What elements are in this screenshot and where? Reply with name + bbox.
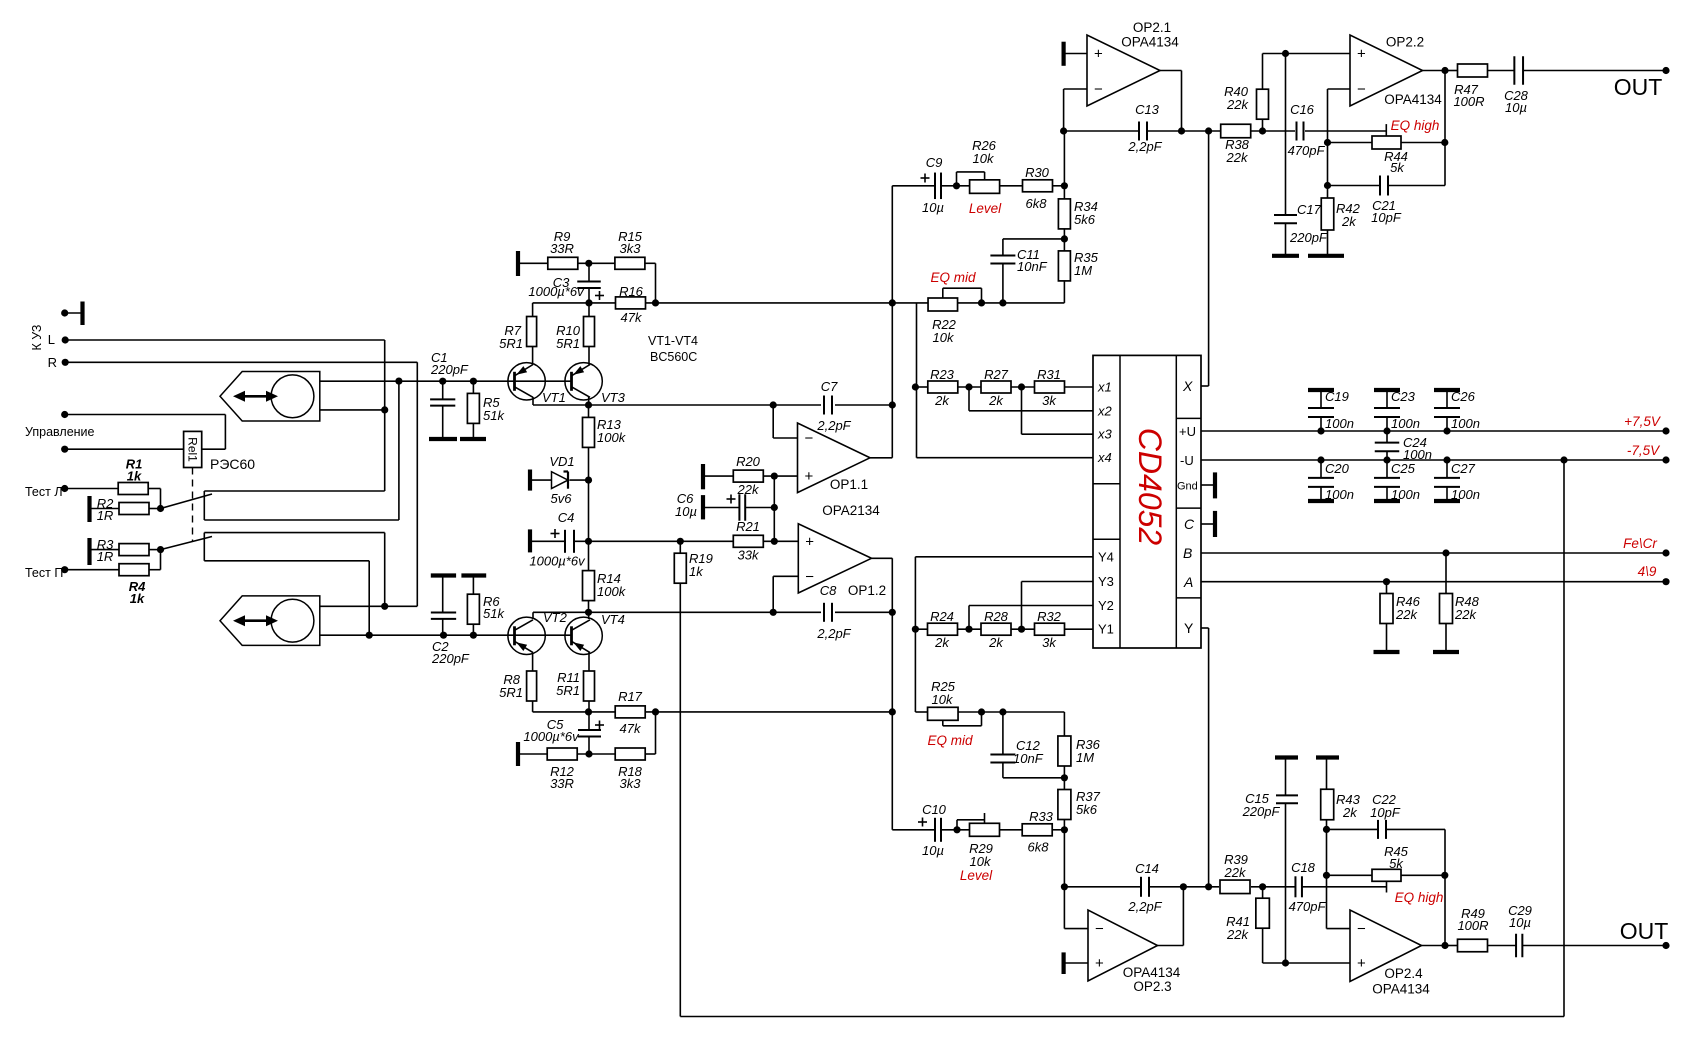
wire VT1 collector down (532, 397, 534, 405)
svg-text:100k: 100k (597, 430, 627, 445)
wire R22 chain riser top (916, 303, 918, 458)
wire OP2.2 - input (1328, 88, 1351, 90)
wire R45 right (1401, 874, 1445, 876)
svg-text:Y4: Y4 (1098, 549, 1114, 564)
svg-text:VT4: VT4 (601, 612, 625, 627)
wire R5 stubs (472, 381, 474, 393)
junction (1282, 50, 1289, 57)
wire R22 right to R35 bottom (958, 302, 1065, 304)
svg-text:1M: 1M (1076, 750, 1094, 765)
wire x4 line (917, 457, 1094, 459)
wire OUT line bottom (1522, 945, 1666, 947)
junction (381, 406, 388, 413)
wire R3 left to ground (90, 549, 120, 551)
resistor R10 (584, 317, 595, 347)
wire OP2.2 fb column (1327, 89, 1329, 186)
junction (978, 299, 985, 306)
svg-text:10k: 10k (933, 330, 955, 345)
wire head1 top lead / VT1 base line (320, 380, 572, 382)
svg-text:EQ high: EQ high (1391, 118, 1440, 133)
wire +7.5V rail (1201, 430, 1666, 432)
svg-text:100n: 100n (1451, 487, 1480, 502)
junction (770, 609, 777, 616)
svg-text:VD1: VD1 (549, 454, 574, 469)
capacitor C17 (1274, 214, 1297, 216)
svg-text:+U: +U (1179, 424, 1196, 439)
svg-text:Level: Level (969, 201, 1002, 216)
ground (461, 573, 486, 577)
wire OP1.2 - input (773, 575, 798, 577)
svg-text:22k: 22k (1454, 607, 1477, 622)
svg-text:Y: Y (1184, 620, 1194, 636)
junction (953, 182, 960, 189)
junction (912, 626, 919, 633)
wire contact1 step lower (204, 519, 399, 521)
wire R25 tap (942, 720, 944, 725)
svg-text:51k: 51k (483, 606, 505, 621)
svg-text:+: + (1095, 955, 1104, 972)
svg-text:VT2: VT2 (543, 610, 568, 625)
wire R36-R37 stubs (1063, 766, 1065, 789)
junction (157, 505, 164, 512)
wire contact2 drop to head2 top lead (384, 533, 386, 607)
svg-text:C: C (1184, 516, 1195, 532)
wire C10 line (892, 829, 935, 831)
wire R19 top stub (679, 541, 681, 553)
junction (771, 473, 778, 480)
wire Y3 bend (1021, 582, 1023, 630)
tape head 1 (220, 372, 320, 422)
svg-text:R21: R21 (736, 519, 760, 534)
junction (585, 609, 592, 616)
svg-text:R17: R17 (618, 689, 643, 704)
svg-text:Тест П: Тест П (25, 566, 63, 580)
svg-text:220pF: 220pF (431, 651, 470, 666)
svg-text:6k8: 6k8 (1028, 840, 1050, 855)
svg-text:OPA2134: OPA2134 (822, 503, 880, 518)
transistor VT2 (508, 617, 545, 654)
junction (585, 477, 592, 484)
resistor R39 (1220, 880, 1250, 894)
resistor R13 (583, 417, 595, 447)
svg-text:OP1.2: OP1.2 (848, 583, 886, 598)
svg-text:C26: C26 (1451, 389, 1476, 404)
wire VD1 node to C4 node (588, 480, 590, 541)
ground (1434, 499, 1460, 503)
wire R48 stubs (1445, 553, 1447, 593)
wire R47 left (1445, 70, 1458, 72)
resistor R6 (467, 594, 479, 624)
wire OP2.3 - input (1064, 928, 1088, 930)
wire C pin stub (1201, 523, 1215, 525)
wire Y2 bend (968, 606, 970, 630)
wire R12-C5 junction line (577, 753, 616, 755)
wire riser to head2 bottom lead (368, 561, 370, 635)
op-amp OP1.1 (798, 423, 871, 493)
svg-text:OP2.4: OP2.4 (1384, 966, 1423, 981)
svg-text:Y1: Y1 (1098, 622, 1114, 637)
capacitor C24 (1375, 442, 1400, 444)
svg-text:C18: C18 (1291, 860, 1316, 875)
wire C7 right to output (835, 404, 892, 406)
junction (585, 750, 592, 757)
junction (1383, 427, 1390, 434)
capacitor C16 (1296, 122, 1298, 141)
svg-text:CD4052: CD4052 (1132, 428, 1168, 546)
wire x3 bend (1021, 387, 1023, 434)
wire OP2.1 output (1160, 70, 1182, 72)
junction (953, 826, 960, 833)
wire C9 line (892, 185, 935, 187)
wire ground stub top-left (65, 312, 83, 314)
svg-text:33k: 33k (738, 548, 760, 563)
svg-text:R: R (48, 355, 57, 370)
wire + input tie column (773, 476, 775, 541)
wire C19 stubs (1320, 390, 1322, 408)
svg-text:2,2pF: 2,2pF (1127, 899, 1162, 914)
svg-text:10k: 10k (970, 854, 992, 869)
svg-text:R16: R16 (619, 284, 644, 299)
wire C24 stubs (1386, 431, 1388, 443)
junction (1323, 826, 1330, 833)
wire C14 right (1149, 886, 1219, 888)
wire relay contact arm 1 (161, 494, 213, 509)
ground (701, 495, 705, 519)
svg-text:OPA4134: OPA4134 (1372, 982, 1430, 997)
wire C5 top stub (588, 712, 590, 730)
wire head2 bottom lead / VT2 base line (320, 634, 572, 636)
trimmer R44 (1372, 136, 1401, 149)
junction (1443, 456, 1450, 463)
svg-text:C7: C7 (821, 379, 838, 394)
resistor R30 (1023, 180, 1053, 192)
svg-text:Fe\Cr: Fe\Cr (1623, 536, 1657, 551)
capacitor C20 (1308, 477, 1334, 479)
junction (1060, 127, 1067, 134)
capacitor C8 (823, 603, 825, 622)
ground (1308, 254, 1344, 258)
wire C9 to R26 (941, 185, 970, 187)
capacitor C10 (934, 818, 936, 842)
svg-text:+: + (1094, 46, 1103, 63)
capacitor C14 (1140, 877, 1142, 897)
wire R39 right (1251, 886, 1296, 888)
svg-text:2k: 2k (1342, 805, 1358, 820)
svg-text:C20: C20 (1325, 461, 1350, 476)
wire R16 line (533, 302, 616, 304)
svg-text:-7,5V: -7,5V (1627, 443, 1661, 458)
wire OUT line top (1523, 70, 1666, 72)
junction (889, 299, 896, 306)
svg-text:−: − (1095, 921, 1104, 938)
wire C8 right to output column (835, 611, 892, 613)
wire R46 stubs (1386, 582, 1388, 594)
junction (439, 378, 446, 385)
junction (1205, 883, 1212, 890)
wire R43 stubs (1326, 758, 1328, 790)
svg-text:100R: 100R (1457, 918, 1488, 933)
wire R7 top bend (532, 303, 534, 316)
svg-text:470pF: 470pF (1288, 143, 1326, 158)
resistor R14 (583, 571, 595, 601)
ground (1061, 952, 1065, 974)
ground (1316, 755, 1339, 759)
junction (770, 401, 777, 408)
trimmer R25 (928, 707, 959, 720)
wire contact1 step bend (203, 491, 205, 520)
svg-text:2k: 2k (934, 393, 950, 408)
svg-text:6k8: 6k8 (1026, 196, 1048, 211)
svg-text:5k6: 5k6 (1076, 802, 1098, 817)
svg-text:B: B (1183, 545, 1192, 561)
wire OP2.1 - input (1064, 88, 1087, 90)
capacitor C23 (1374, 407, 1400, 409)
svg-text:1k: 1k (689, 564, 704, 579)
wire OP2.2 + line (1263, 53, 1351, 55)
wire contact1 step upper (204, 490, 384, 492)
wire R49 left (1445, 945, 1458, 947)
wire R25 line (915, 711, 927, 713)
capacitor C5 (578, 729, 601, 731)
wire C10 to R29 (941, 829, 970, 831)
wire OP1.1 fb riser (772, 405, 774, 438)
junction (1383, 456, 1390, 463)
wire x2 bend (968, 387, 970, 411)
wire VT4 collector line to C8 (533, 611, 821, 613)
ground (1374, 650, 1400, 654)
junction (1441, 872, 1448, 879)
svg-text:R23: R23 (930, 367, 955, 382)
svg-text:1R: 1R (97, 549, 114, 564)
svg-text:5R1: 5R1 (499, 685, 523, 700)
wire relay dashed link (192, 468, 194, 542)
wire R38 right (1251, 130, 1296, 132)
capacitor C6 (738, 494, 740, 521)
svg-text:x3: x3 (1097, 427, 1113, 442)
wire VT2 emitter down (532, 653, 534, 672)
wire R20 right to OP1.1 + (763, 475, 797, 477)
wire R24 row (915, 628, 927, 630)
capacitor C18 (1294, 876, 1296, 897)
resistor R11 (584, 671, 595, 701)
junction (889, 708, 896, 715)
junction (1282, 959, 1289, 966)
svg-text:OPA4134: OPA4134 (1384, 92, 1442, 107)
svg-text:10µ: 10µ (1509, 915, 1531, 930)
wire R26 tap (984, 172, 986, 180)
wire C21 line (1328, 185, 1381, 187)
wire C21 right bend (1388, 185, 1445, 187)
wire R23 row junction line (915, 386, 928, 388)
svg-text:10pF: 10pF (1371, 210, 1402, 225)
wire output column top (1444, 71, 1446, 143)
svg-text:100n: 100n (1451, 416, 1480, 431)
wire OP1.1 output (870, 457, 892, 459)
junction (771, 504, 778, 511)
ground (460, 437, 486, 441)
svg-text:2k: 2k (934, 635, 950, 650)
junction (652, 299, 659, 306)
svg-text:100n: 100n (1391, 487, 1420, 502)
svg-text:C27: C27 (1451, 461, 1476, 476)
wire Y pin drop (1208, 628, 1210, 887)
junction (1061, 883, 1068, 890)
svg-text:2k: 2k (988, 393, 1004, 408)
svg-text:C23: C23 (1391, 389, 1416, 404)
svg-text:EQ high: EQ high (1395, 890, 1444, 905)
capacitor C3 (577, 280, 601, 282)
svg-text:Y2: Y2 (1098, 598, 1114, 613)
resistor R32 (1035, 623, 1065, 635)
svg-text:OPA4134: OPA4134 (1123, 965, 1181, 980)
junction (440, 632, 447, 639)
junction (889, 401, 896, 408)
junction (1061, 826, 1068, 833)
wire C17 column (1285, 54, 1287, 216)
capacitor C26 (1434, 407, 1460, 409)
wire C6 right (745, 507, 774, 509)
svg-text:EQ mid: EQ mid (927, 733, 973, 748)
wire Test-L line (65, 488, 118, 490)
resistor R48 (1440, 594, 1453, 624)
junction (999, 299, 1006, 306)
junction (157, 546, 164, 553)
wire R9 line left (518, 262, 548, 264)
wire R3 right to junction (149, 549, 161, 551)
junction (1324, 182, 1331, 189)
svg-text:Gnd: Gnd (1177, 481, 1198, 493)
wire C5 bottom stub (588, 737, 590, 755)
capacitor C28 (1513, 56, 1515, 85)
resistor R3 (119, 544, 149, 556)
resistor R37 (1058, 790, 1071, 820)
capacitor C2 (431, 612, 456, 614)
capacitor C11 (990, 255, 1015, 257)
wire OP1.2 output (872, 557, 893, 559)
op-amp OP2.3 (1088, 910, 1158, 981)
wire R26 to R30 (1000, 185, 1023, 187)
wire C6 left (703, 507, 739, 509)
wire R29 tap (984, 813, 986, 823)
ground (1374, 499, 1400, 503)
svg-text:10µ: 10µ (1505, 100, 1527, 115)
junction (1061, 182, 1068, 189)
wire R34-R35 junction line (1003, 238, 1065, 240)
svg-text:100n: 100n (1325, 487, 1354, 502)
svg-text:10pF: 10pF (1370, 805, 1401, 820)
svg-text:10µ: 10µ (922, 843, 944, 858)
wire OP2.3 output riser (1182, 887, 1184, 946)
svg-text:R31: R31 (1037, 367, 1061, 382)
svg-text:−: − (1094, 81, 1103, 98)
svg-text:100k: 100k (597, 584, 627, 599)
op-amp OP2.1 (1087, 35, 1160, 106)
svg-text:BC560C: BC560C (650, 350, 697, 364)
resistor R36 (1058, 736, 1071, 766)
wire R input line (65, 361, 417, 363)
svg-text:+: + (1357, 955, 1366, 972)
trimmer R26 (970, 180, 1000, 194)
wire C12 top stub (1002, 712, 1004, 755)
junction (1560, 456, 1567, 463)
wire R17 line right (645, 711, 893, 713)
svg-text:R24: R24 (930, 609, 954, 624)
zener diode VD1 (552, 472, 569, 489)
wire emitter line to C7 (589, 404, 822, 406)
svg-text:51k: 51k (483, 408, 505, 423)
svg-text:47k: 47k (621, 310, 643, 325)
wire R33 right (1053, 829, 1065, 831)
junction (1317, 456, 1324, 463)
resistor R42 (1321, 198, 1334, 230)
ground (528, 529, 532, 552)
wire R2 left to ground (90, 508, 120, 510)
capacitor C19 (1308, 407, 1334, 409)
svg-text:1R: 1R (97, 508, 114, 523)
wire Y1 stub (1065, 628, 1094, 630)
svg-text:3k: 3k (1042, 635, 1057, 650)
junction (395, 378, 402, 385)
resistor R21 (733, 535, 763, 547)
wire C23 stubs (1386, 390, 1388, 408)
terminal OUT top (1662, 67, 1669, 74)
svg-text:1000µ*6v: 1000µ*6v (528, 284, 585, 299)
wire C25 stubs (1386, 460, 1388, 478)
wire X pin riser (1208, 131, 1210, 386)
svg-text:22k: 22k (1226, 97, 1249, 112)
svg-text:+: + (805, 468, 814, 485)
wire contact2 step bend (203, 533, 205, 561)
wire R43-C22 line (1327, 828, 1379, 830)
ground (1374, 388, 1400, 392)
wire Y4 line (915, 556, 1093, 558)
wire VT2 collector up (532, 612, 534, 619)
svg-text:Level: Level (960, 868, 993, 883)
svg-text:РЭС60: РЭС60 (210, 456, 255, 472)
junction (1180, 883, 1187, 890)
ground (1213, 511, 1217, 537)
svg-text:3k3: 3k3 (620, 776, 642, 791)
capacitor C25 (1374, 477, 1400, 479)
wire R10 top stub (588, 303, 590, 316)
wire R10 to VT3 emitter (588, 347, 590, 365)
svg-text:2,2pF: 2,2pF (816, 626, 851, 641)
junction (1259, 127, 1266, 134)
wire relay coil right bend (224, 415, 226, 450)
junction (585, 708, 592, 715)
ground (87, 496, 91, 522)
wire Fe/Cr line (1201, 552, 1666, 554)
svg-text:33R: 33R (550, 241, 574, 256)
capacitor C15 (1276, 794, 1298, 796)
trimmer R29 (970, 823, 1000, 836)
svg-text:2k: 2k (988, 635, 1004, 650)
resistor R17 (615, 706, 645, 718)
svg-text:x4: x4 (1097, 450, 1112, 465)
wire relay contact arm 2 (161, 537, 213, 550)
wire VT3 collector down (588, 397, 590, 405)
svg-text:3k3: 3k3 (620, 241, 642, 256)
wire OP2.2 output (1423, 70, 1446, 72)
svg-text:L: L (48, 332, 55, 347)
terminal OUT bottom (1662, 942, 1669, 949)
resistor R38 (1221, 124, 1251, 138)
svg-text:+: + (805, 533, 814, 550)
wire R44 right (1401, 142, 1445, 144)
wire C18 right to R45 tap (1302, 886, 1387, 888)
svg-text:1M: 1M (1074, 263, 1092, 278)
wire Test-P line (65, 569, 119, 571)
